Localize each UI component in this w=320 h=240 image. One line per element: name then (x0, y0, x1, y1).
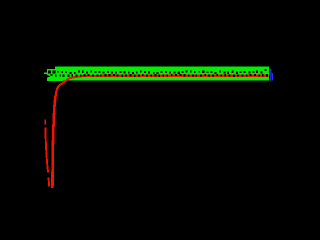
blue edge bar (272, 73, 273, 81)
red main curve upper part (56, 76, 269, 95)
green error band (47, 67, 269, 81)
black dotted line row A (upper) (48, 69, 266, 74)
blue error bar (270, 69, 272, 80)
red left dashed curve (45, 120, 49, 187)
black wedge at band left edge (47, 75, 51, 78)
black dotted line row B (lower, over red) (50, 74, 268, 77)
blue data point marker (269, 73, 272, 77)
green sliver left of band (44, 72, 47, 74)
red main curve steep branch (52, 95, 55, 188)
